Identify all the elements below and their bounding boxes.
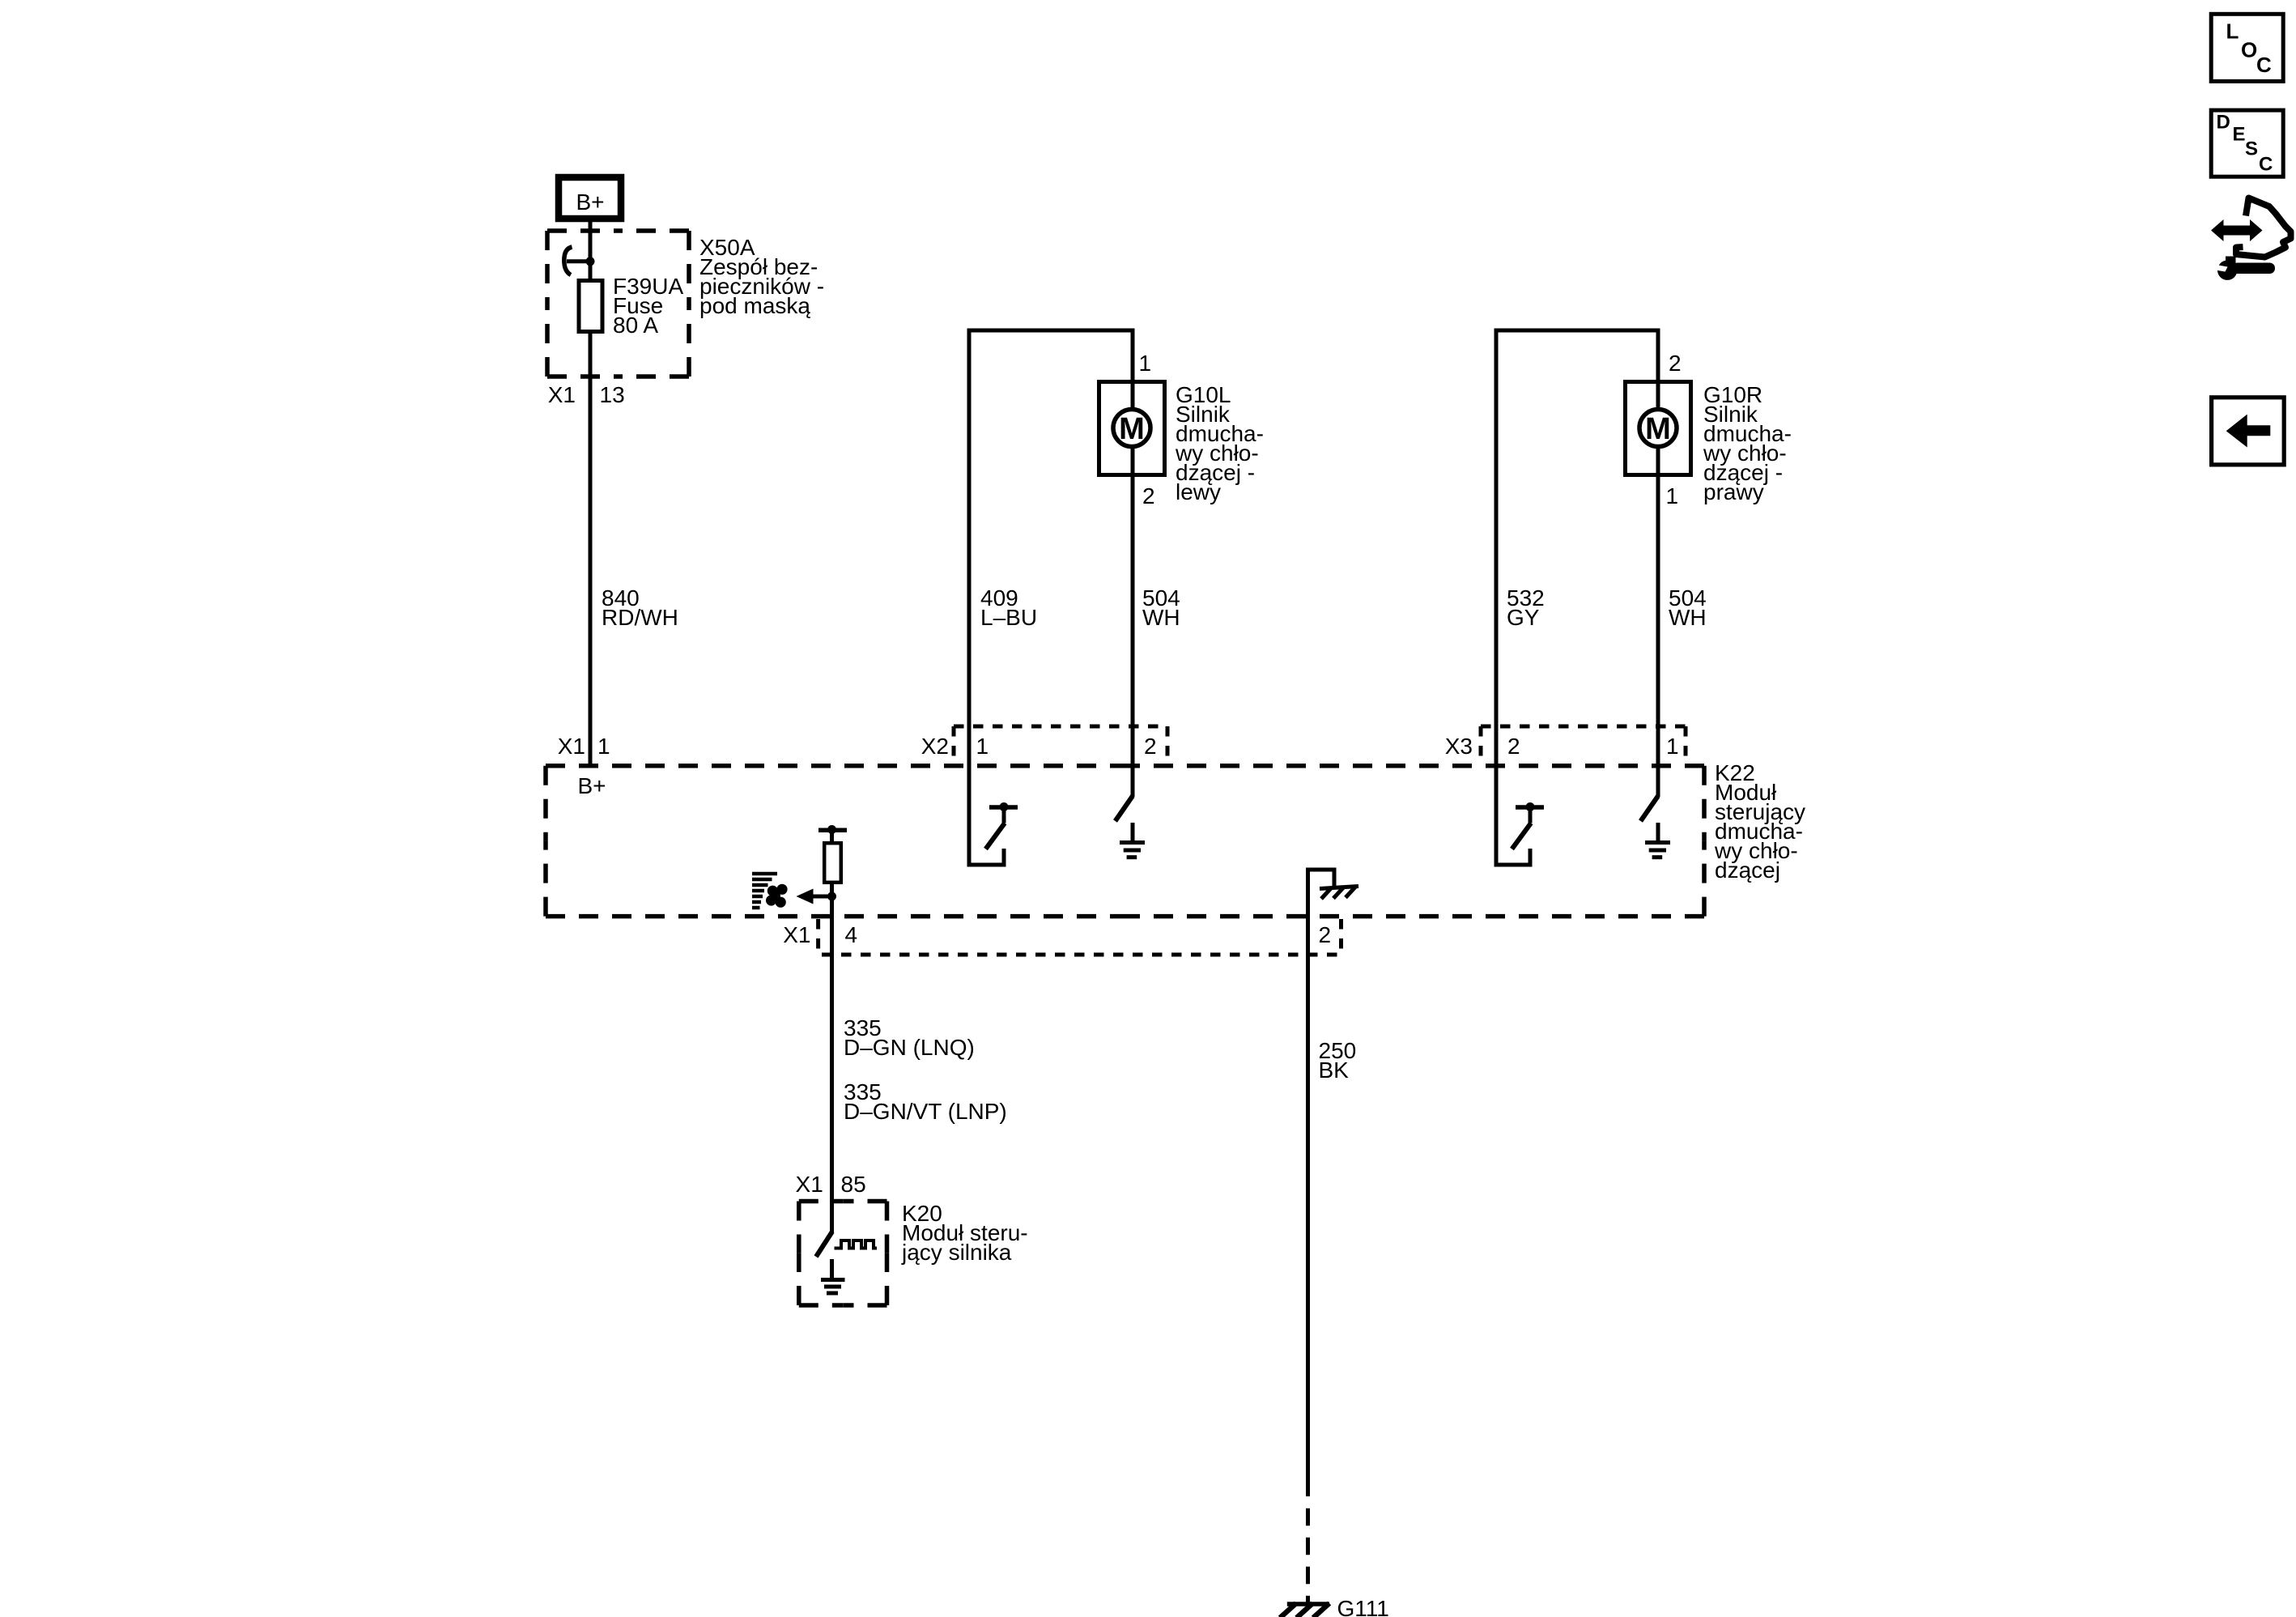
connector X2 dotted box xyxy=(954,726,1167,764)
module K22 dashed box xyxy=(546,766,1704,917)
svg-text:RD/WH: RD/WH xyxy=(602,605,678,630)
wire G10R loop with J-foot xyxy=(1496,330,1658,865)
label G10L xyxy=(1175,382,1264,504)
svg-text:X3: X3 xyxy=(1445,734,1473,759)
connector X3 dotted box xyxy=(1481,726,1686,764)
svg-text:S: S xyxy=(2245,138,2258,160)
svg-text:L–BU: L–BU xyxy=(980,605,1037,630)
svg-text:M: M xyxy=(1119,412,1145,446)
svg-text:WH: WH xyxy=(1142,605,1180,630)
fan icon xyxy=(766,884,788,908)
svg-text:dzącej: dzącej xyxy=(1715,857,1780,883)
connector X50A fuse block dashed box xyxy=(547,231,689,377)
svg-text:X2: X2 xyxy=(921,734,949,759)
svg-text:O: O xyxy=(2241,38,2257,62)
junction dot xyxy=(827,892,836,901)
svg-text:2: 2 xyxy=(1144,734,1157,759)
svg-text:4: 4 xyxy=(845,922,858,947)
module K20 dashed box xyxy=(799,1202,887,1306)
connector X1 bottom of K22 xyxy=(818,919,1346,955)
PWM signal symbol xyxy=(835,1240,878,1249)
svg-text:E: E xyxy=(2233,124,2246,146)
svg-text:2: 2 xyxy=(1507,734,1520,759)
wire label 335 D-GN (LNQ) xyxy=(844,1015,975,1060)
pin labels X1 1 at K22 xyxy=(558,734,610,759)
svg-text:C: C xyxy=(2259,154,2273,176)
icon LOC xyxy=(2211,14,2283,81)
svg-text:pod maską: pod maską xyxy=(699,293,810,318)
svg-text:X1: X1 xyxy=(783,922,810,947)
svg-text:GY: GY xyxy=(1507,605,1540,630)
B+ power feed box xyxy=(559,177,621,219)
svg-text:80 A: 80 A xyxy=(613,313,658,338)
wire 250 BK xyxy=(1306,917,1310,1496)
svg-text:G111: G111 xyxy=(1337,1596,1389,1617)
resistor contact bar xyxy=(818,825,847,834)
wire label 335 D-GN/VT (LNP) xyxy=(844,1079,1007,1124)
svg-text:WH: WH xyxy=(1669,605,1707,630)
svg-text:D–GN (LNQ): D–GN (LNQ) xyxy=(844,1035,975,1060)
svg-text:BK: BK xyxy=(1319,1057,1350,1083)
svg-text:X1: X1 xyxy=(548,382,576,407)
label G10R xyxy=(1703,382,1792,504)
wire label 409 L-BU xyxy=(980,585,1037,630)
svg-text:1: 1 xyxy=(1666,483,1679,509)
motor G10R box xyxy=(1626,382,1691,475)
svg-text:1: 1 xyxy=(976,734,989,759)
wire label 504 WH xyxy=(1142,585,1180,630)
label K20 xyxy=(901,1201,1028,1265)
svg-text:B+: B+ xyxy=(578,773,606,798)
svg-text:13: 13 xyxy=(600,382,625,407)
svg-text:M: M xyxy=(1645,412,1671,446)
svg-text:85: 85 xyxy=(841,1172,866,1197)
svg-text:D–GN/VT (LNP): D–GN/VT (LNP) xyxy=(844,1099,1007,1124)
svg-text:B+: B+ xyxy=(576,189,604,215)
arrow to fan xyxy=(797,889,832,904)
pin labels X1 13 xyxy=(548,382,625,407)
svg-text:X1: X1 xyxy=(796,1172,823,1197)
svg-text:2: 2 xyxy=(1142,483,1155,509)
svg-text:prawy: prawy xyxy=(1703,479,1764,504)
junction dot xyxy=(586,257,595,266)
wire label 250 BK xyxy=(1319,1038,1357,1083)
svg-text:2: 2 xyxy=(1669,351,1682,376)
wire label 532 GY xyxy=(1507,585,1545,630)
svg-text:C: C xyxy=(2256,53,2272,77)
icon diagnostic (double arrow, part outline, wrench) xyxy=(2211,198,2291,280)
pin labels X1 85 xyxy=(796,1172,866,1197)
svg-text:1: 1 xyxy=(597,734,610,759)
wire G10L loop with J-foot xyxy=(969,330,1133,865)
svg-text:2: 2 xyxy=(1319,922,1332,947)
motor G10L box xyxy=(1099,382,1165,475)
svg-text:lewy: lewy xyxy=(1176,479,1221,504)
motor G10R symbol xyxy=(1639,410,1677,447)
svg-text:1: 1 xyxy=(1666,734,1679,759)
wire label 504 WH right xyxy=(1669,585,1707,630)
internal chassis ground loop xyxy=(1308,870,1359,917)
wire label 840 RD/WH xyxy=(602,585,678,630)
svg-text:jący silnika: jący silnika xyxy=(901,1240,1012,1265)
fuse F39UA xyxy=(579,281,602,332)
switch driver X2-1 xyxy=(986,802,1018,849)
speed ramp icon xyxy=(752,874,777,908)
ground G111 xyxy=(1280,1603,1329,1617)
wire B+ to K22 X1-1 (840 RD/WH) xyxy=(589,222,593,768)
label X50A fuse block xyxy=(699,235,824,318)
label K22 xyxy=(1714,760,1805,883)
label F39UA Fuse 80 A xyxy=(613,274,683,338)
battery clamp symbol xyxy=(564,247,590,275)
switch to ground X3-1 xyxy=(1641,796,1671,857)
svg-text:D: D xyxy=(2217,112,2230,134)
ground inside K20 xyxy=(821,1259,845,1293)
svg-text:L: L xyxy=(2226,19,2239,44)
svg-text:X1: X1 xyxy=(558,734,585,759)
icon DESC xyxy=(2211,110,2283,177)
switch to ground X2-2 xyxy=(1116,796,1146,857)
wire 335 through resistor to K20 xyxy=(830,830,834,1232)
switch driver X3-2 xyxy=(1512,802,1545,849)
switch inside K20 xyxy=(816,1232,832,1257)
svg-text:1: 1 xyxy=(1139,351,1152,376)
motor G10L symbol xyxy=(1113,410,1150,447)
icon back arrow xyxy=(2212,398,2285,465)
resistor (fan driver) xyxy=(824,843,841,883)
